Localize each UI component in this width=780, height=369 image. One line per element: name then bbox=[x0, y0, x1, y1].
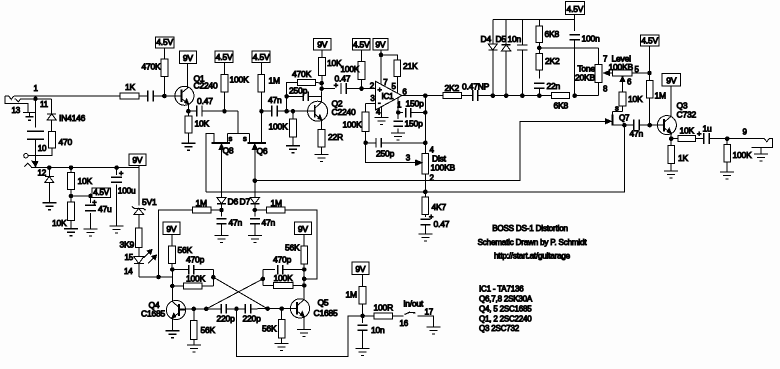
note Q45 2SC1685 bbox=[479, 305, 532, 314]
label 47n Q7 bbox=[630, 129, 644, 139]
label IC1 bbox=[382, 92, 395, 101]
resistor 10K divider lower bbox=[68, 196, 75, 229]
svg-text:Q8: Q8 bbox=[223, 146, 234, 156]
svg-text:3K9: 3K9 bbox=[120, 240, 135, 250]
svg-text:1K: 1K bbox=[125, 82, 136, 92]
label 220p right bbox=[243, 314, 262, 324]
node line A D7 bbox=[253, 178, 258, 183]
wire 9V to 21K bbox=[381, 55, 397, 60]
svg-text:D6: D6 bbox=[228, 197, 239, 207]
power box 9V 1M bbox=[352, 262, 369, 275]
ground under 22R bbox=[315, 155, 329, 162]
svg-text:2K2: 2K2 bbox=[545, 56, 560, 66]
diode D7 bbox=[250, 181, 259, 210]
svg-text:Q7: Q7 bbox=[619, 114, 630, 123]
wire 47n to Q1 base bbox=[153, 95, 174, 97]
node Q5 base diag bbox=[265, 306, 270, 311]
plus mark 0.47 gnd bbox=[429, 212, 434, 221]
label 22R bbox=[328, 132, 343, 142]
jfet Q6 2SK30A bbox=[247, 133, 265, 180]
svg-text:9V: 9V bbox=[132, 155, 143, 165]
svg-text:56K: 56K bbox=[201, 325, 216, 335]
resistor 10K Q2 collector bbox=[319, 50, 326, 102]
power box 4.5V 100K bbox=[215, 51, 233, 63]
label 10n top bbox=[508, 34, 522, 44]
diode D5 bbox=[502, 20, 511, 96]
resistor 100K output bbox=[724, 139, 731, 172]
label pin 1 bbox=[397, 101, 402, 110]
svg-text:IC1: IC1 bbox=[382, 92, 395, 101]
label 5V1 bbox=[142, 197, 157, 207]
svg-text:47n: 47n bbox=[630, 129, 644, 139]
note Q3 2SC732 bbox=[479, 324, 520, 333]
resistor 1M FET bias bbox=[258, 63, 265, 112]
wire 9V to pin7 bbox=[380, 50, 382, 85]
svg-text:10n: 10n bbox=[508, 34, 522, 44]
label 100R bbox=[374, 303, 394, 313]
label pin 14 bbox=[124, 267, 133, 276]
label C1685 Q4 bbox=[141, 309, 166, 319]
node IC output bbox=[423, 93, 428, 98]
capacitor 220p right bbox=[245, 304, 250, 314]
wire pin3 to Dist wiper bbox=[366, 143, 422, 165]
label 10n bottom bbox=[371, 325, 385, 335]
resistor 10K level bbox=[619, 92, 626, 112]
node 250p tap bbox=[284, 94, 289, 99]
label 2K2 mid bbox=[445, 83, 460, 93]
wire diagonal B bbox=[206, 279, 263, 309]
svg-text:56K: 56K bbox=[262, 324, 277, 334]
ground under 56K Q5 base bbox=[275, 344, 289, 351]
svg-text:9V: 9V bbox=[166, 224, 177, 234]
svg-text:220p: 220p bbox=[243, 314, 262, 324]
wire power rail 9V bbox=[31, 167, 139, 169]
ground under divider bbox=[64, 229, 78, 236]
capacitor 10n top bbox=[517, 20, 528, 96]
svg-text:10K: 10K bbox=[78, 176, 93, 186]
label 10K Q2 bbox=[327, 58, 342, 68]
node ring junction bbox=[33, 97, 38, 102]
diode D IN4146 bbox=[47, 99, 56, 132]
label Q6 bbox=[257, 146, 268, 156]
note IC1 - TA7136 bbox=[479, 285, 524, 294]
node Q1 emitter bbox=[186, 109, 191, 114]
wire Q3 emitter bbox=[670, 134, 672, 139]
jfet Q8 2SK30A bbox=[206, 133, 250, 197]
wire 470p corner Q5 bbox=[262, 270, 264, 286]
label 47n D6 bbox=[229, 218, 243, 228]
label D5 bbox=[496, 34, 507, 44]
note Q678 2SK30A bbox=[479, 295, 533, 304]
svg-text:100n: 100n bbox=[582, 34, 601, 44]
label D7 bbox=[240, 197, 251, 207]
label 100u bbox=[118, 186, 136, 196]
label pin 2 bbox=[370, 81, 375, 90]
capacitor 100u bbox=[111, 168, 122, 226]
svg-text:15: 15 bbox=[125, 253, 134, 262]
wire diagonal A bbox=[213, 277, 267, 309]
svg-text:100K: 100K bbox=[733, 150, 753, 160]
label 220p left bbox=[217, 314, 236, 324]
capacitor 47n input bbox=[148, 91, 153, 102]
label 470p Q5 bbox=[273, 255, 292, 265]
svg-text:Q3 2SC732: Q3 2SC732 bbox=[479, 324, 520, 333]
wire IC output bbox=[402, 95, 443, 97]
label Q4 bbox=[149, 300, 160, 310]
svg-text:http://start.at/guitarage: http://start.at/guitarage bbox=[494, 252, 571, 261]
svg-text:470: 470 bbox=[59, 137, 73, 147]
wire Q2 emitter bbox=[321, 121, 323, 130]
svg-text:4.5V: 4.5V bbox=[641, 36, 658, 46]
label 10K Q3 out bbox=[680, 126, 695, 136]
switch in/out blade bbox=[405, 312, 416, 314]
wire Q6 to 47n bbox=[262, 110, 272, 112]
ground under 47n D7 bbox=[248, 236, 262, 243]
node Q2 base bias bbox=[291, 109, 296, 114]
node output riser 250p bbox=[423, 141, 428, 146]
node IC input 100K bbox=[359, 86, 364, 91]
capacitor 470p Q4 bbox=[172, 265, 213, 275]
svg-text:4K7: 4K7 bbox=[432, 202, 447, 212]
svg-text:100KB: 100KB bbox=[431, 163, 456, 173]
svg-text:10K: 10K bbox=[628, 94, 643, 104]
label 250p Q2 bbox=[289, 86, 308, 96]
svg-text:C1685: C1685 bbox=[141, 309, 166, 319]
wire 1M D7 to Q5 collector bbox=[285, 210, 317, 279]
node Q2 feedback riser bbox=[284, 109, 289, 114]
diode D battery protection bbox=[45, 168, 54, 203]
svg-text:13: 13 bbox=[12, 106, 21, 115]
svg-text:5V1: 5V1 bbox=[142, 197, 157, 207]
svg-text:4.5V: 4.5V bbox=[156, 37, 173, 47]
plus mark 0.47 IC bbox=[334, 81, 339, 90]
node 47u junction bbox=[88, 194, 93, 199]
wire tip to 1K bbox=[14, 95, 120, 97]
label pin 7 bbox=[383, 78, 388, 87]
label pin 17 bbox=[425, 308, 434, 317]
svg-text:22R: 22R bbox=[328, 132, 343, 142]
label pin 4 dist bbox=[430, 146, 435, 155]
label s Q6 bbox=[243, 134, 247, 143]
label pin 7 tone bbox=[603, 55, 608, 64]
capacitor 250p Q2 bbox=[287, 92, 322, 102]
wire 1M left lead-in bbox=[159, 210, 193, 277]
svg-text:9V: 9V bbox=[183, 53, 194, 63]
label 0.47 IC bbox=[335, 74, 351, 84]
label s Q8 bbox=[229, 134, 233, 143]
wire 1u to output jack bbox=[709, 138, 764, 140]
wire 9V box to zener bbox=[138, 166, 140, 206]
label 10K Q1 bbox=[195, 119, 210, 129]
label pin 6 bbox=[402, 88, 407, 97]
label 10K lower bbox=[52, 218, 67, 228]
svg-text:3: 3 bbox=[370, 94, 375, 103]
node 10n main bbox=[520, 93, 525, 98]
svg-text:9V: 9V bbox=[317, 39, 328, 49]
label 0.47 dist bbox=[434, 219, 450, 229]
label 100K FET bias bbox=[230, 75, 250, 85]
battery plates bbox=[27, 131, 44, 139]
svg-text:10n: 10n bbox=[371, 325, 385, 335]
svg-text:470K: 470K bbox=[292, 69, 312, 79]
svg-text:Q4, 5 2SC1685: Q4, 5 2SC1685 bbox=[479, 305, 532, 314]
pot Tone 20KB bbox=[595, 65, 613, 83]
label C2240 bbox=[194, 80, 219, 90]
plus mark 1u bbox=[697, 129, 702, 138]
capacitor 22n bbox=[534, 83, 545, 96]
node Q6 drain 1M bbox=[259, 109, 264, 114]
ground under Q5 bbox=[297, 330, 311, 337]
capacitor 47u bbox=[85, 196, 96, 229]
label Q7 bbox=[619, 114, 630, 123]
title BOSS DS-1 Distortion bbox=[492, 224, 568, 233]
pot Level 100KB bbox=[613, 70, 633, 92]
ground under protection diode bbox=[42, 203, 56, 210]
wire 100R to switch bbox=[393, 315, 404, 317]
label 1M flipflop bbox=[346, 290, 358, 300]
resistor 1K Q3 bbox=[668, 139, 675, 171]
resistor 100K IC bias bbox=[358, 50, 365, 89]
wire line B signal bbox=[206, 125, 624, 192]
label pin 10 bbox=[38, 144, 47, 153]
svg-text:470p: 470p bbox=[186, 255, 205, 265]
svg-text:D7: D7 bbox=[240, 197, 251, 207]
ground under Q1 10K bbox=[181, 143, 195, 150]
wire 1K to 47n bbox=[139, 95, 148, 97]
capacitor 100n bbox=[569, 35, 580, 96]
svg-text:100u: 100u bbox=[118, 186, 136, 196]
diode D6 bbox=[217, 198, 226, 210]
label 4K7 bbox=[432, 202, 447, 212]
power box 4.5V Q1 bias bbox=[155, 37, 174, 48]
svg-text:47u: 47u bbox=[98, 204, 112, 214]
power box 9V Q1 bbox=[180, 51, 197, 64]
node Q4 base 56K bbox=[192, 307, 197, 312]
node 100n main bbox=[572, 93, 577, 98]
label C1685 Q5 bbox=[314, 308, 339, 318]
svg-text:4.5V: 4.5V bbox=[93, 188, 110, 197]
wire 0.47 to IC pin2 bbox=[346, 88, 375, 90]
label Q3 bbox=[677, 101, 688, 111]
label 1M Q3 bias bbox=[655, 91, 667, 101]
label 100n bbox=[582, 34, 601, 44]
node pin1 150p bbox=[396, 110, 401, 115]
label 6K8 upper bbox=[545, 29, 560, 39]
LED indicator diode bbox=[134, 257, 144, 277]
wire ring to diode chain bbox=[36, 98, 52, 100]
wire pin1 riser bbox=[397, 98, 399, 113]
zener diode 5V1 bbox=[132, 207, 146, 229]
power box 4.5V 1M bbox=[252, 51, 270, 63]
label 470 bbox=[59, 137, 73, 147]
diode D4 bbox=[488, 20, 497, 96]
node D7 1M 47n bbox=[253, 208, 258, 213]
label 1K bbox=[125, 82, 136, 92]
resistor 470 bbox=[49, 131, 56, 148]
svg-text:2K2: 2K2 bbox=[445, 83, 460, 93]
subtitle url bbox=[494, 252, 571, 261]
label 20KB bbox=[575, 73, 596, 83]
svg-text:100K: 100K bbox=[341, 64, 360, 74]
capacitor 220p left bbox=[221, 304, 226, 314]
label Q5 bbox=[318, 298, 329, 308]
capacitor 47n D7 bbox=[250, 210, 260, 236]
svg-text:1M: 1M bbox=[346, 290, 358, 300]
node Q5 coll 1M bbox=[302, 277, 307, 282]
resistor 56K Q4 collector bbox=[169, 235, 176, 270]
resistor 6K8 tone upper bbox=[536, 20, 543, 48]
subtitle Schematic Drawn by P. Schmidt bbox=[478, 238, 588, 247]
label 250p IC bbox=[376, 149, 395, 159]
label Q1 bbox=[194, 74, 205, 84]
wire Q2 collector to 0.47 cap bbox=[322, 88, 335, 90]
wire Q2 base riser bbox=[287, 82, 298, 111]
ground under 100u bbox=[110, 226, 124, 233]
wire main to tone bbox=[478, 95, 552, 97]
resistor 1M D6 bbox=[193, 207, 222, 213]
resistor 100K IC pin3 bbox=[362, 103, 369, 142]
resistor 100K Q2 base bias bbox=[290, 111, 297, 146]
svg-text:14: 14 bbox=[124, 267, 133, 276]
svg-text:7: 7 bbox=[383, 78, 388, 87]
label pin 4 bbox=[376, 108, 381, 117]
svg-text:250p: 250p bbox=[289, 86, 308, 96]
label 3K9 bbox=[120, 240, 135, 250]
label C2240 Q2 bbox=[332, 107, 357, 117]
wire 220p to Q5 base bbox=[251, 308, 296, 310]
label C732 bbox=[677, 110, 697, 120]
svg-text:56K: 56K bbox=[285, 243, 300, 253]
battery switch arrow bbox=[32, 161, 38, 167]
transistor Q4 C1685 bbox=[166, 300, 185, 319]
svg-text:0.47: 0.47 bbox=[335, 74, 351, 84]
capacitor 0.47 IC input bbox=[341, 83, 346, 94]
resistor 21K bbox=[394, 60, 401, 93]
ground under 1K Q3 bbox=[664, 171, 678, 178]
resistor 4K7 bbox=[422, 192, 429, 217]
capacitor 0.47 dist gnd bbox=[420, 219, 430, 234]
label 470K bbox=[141, 62, 161, 72]
wire IC pin4 ground bbox=[381, 107, 383, 118]
label 0.47NP bbox=[462, 82, 490, 92]
svg-text:Q6,7,8 2SK30A: Q6,7,8 2SK30A bbox=[479, 295, 533, 304]
svg-text:6K8: 6K8 bbox=[554, 101, 569, 111]
ground under Q4 bbox=[165, 331, 179, 338]
label 100K Q2 bias bbox=[269, 122, 289, 132]
power box 9V Q4 bbox=[163, 222, 180, 235]
label 21K bbox=[403, 61, 418, 71]
node D5 main bbox=[504, 93, 509, 98]
svg-text:4.5V: 4.5V bbox=[353, 39, 370, 49]
svg-text:11: 11 bbox=[40, 100, 49, 109]
svg-text:0.47: 0.47 bbox=[197, 96, 213, 106]
node rail protection diode bbox=[47, 165, 52, 170]
label Q2 bbox=[332, 99, 343, 109]
svg-text:D4: D4 bbox=[481, 34, 492, 44]
svg-text:Q1, 2 2SC2240: Q1, 2 2SC2240 bbox=[479, 314, 532, 323]
resistor 10K divider upper bbox=[68, 168, 75, 196]
svg-text:10K: 10K bbox=[52, 218, 67, 228]
plus mark pin2 bbox=[378, 85, 383, 94]
wire ring down to battery bbox=[35, 99, 37, 128]
resistor 10K Q3 out bbox=[671, 136, 695, 142]
node D6 1M 47n bbox=[219, 208, 224, 213]
label 47n Q2 in bbox=[268, 95, 282, 105]
node rail 100u bbox=[114, 165, 119, 170]
node 1M 10n 100R bbox=[360, 314, 365, 319]
label 47n D7 bbox=[262, 218, 276, 228]
label D4 bbox=[481, 34, 492, 44]
label 470K Q2 bbox=[292, 69, 312, 79]
svg-text:BOSS DS-1 Distortion: BOSS DS-1 Distortion bbox=[492, 224, 568, 233]
svg-text:C732: C732 bbox=[677, 110, 697, 120]
svg-text:9V: 9V bbox=[666, 75, 677, 85]
resistor 2K2 mid bbox=[443, 93, 462, 99]
wire Q4 base bbox=[179, 308, 222, 310]
label 1K Q3 bbox=[678, 153, 689, 163]
transistor Q5 C1685 bbox=[290, 299, 309, 318]
power label 4.5V divider bbox=[92, 188, 111, 198]
label 100K Q4 fb bbox=[186, 274, 206, 284]
svg-text:1M: 1M bbox=[269, 76, 281, 86]
svg-text:1K: 1K bbox=[678, 153, 689, 163]
pot Dist 100KB bbox=[416, 143, 428, 192]
capacitor 10n bottom bbox=[358, 316, 368, 349]
svg-text:150p: 150p bbox=[406, 99, 425, 109]
label 56K Q5 coll bbox=[285, 243, 300, 253]
ground IC pin4 bbox=[375, 118, 389, 125]
svg-text:0.47: 0.47 bbox=[434, 219, 450, 229]
resistor 1M flipflop bbox=[359, 275, 366, 316]
svg-text:100K: 100K bbox=[186, 274, 206, 284]
resistor 100R bbox=[363, 313, 393, 319]
resistor 470K Q1 bias bbox=[161, 59, 168, 96]
svg-text:9V: 9V bbox=[375, 39, 386, 49]
node diag A origin bbox=[211, 275, 216, 280]
resistor 3K9 bbox=[135, 228, 142, 256]
wire Q6 drain up bbox=[261, 111, 263, 133]
capacitor 150p to ground bbox=[393, 113, 403, 134]
ground jack sleeve bbox=[26, 113, 34, 121]
resistor 56K Q4 base bbox=[190, 309, 197, 345]
wire 4.5V to level node bbox=[649, 46, 651, 73]
svg-text:4.5V: 4.5V bbox=[216, 52, 233, 62]
label IN4146 bbox=[59, 113, 86, 123]
wire Q4 collector riser bbox=[171, 270, 173, 302]
label 100K Q5 fb bbox=[274, 273, 294, 283]
svg-text:16: 16 bbox=[400, 319, 409, 328]
label 56K Q4 coll bbox=[178, 245, 193, 255]
capacitor 470p Q5 bbox=[263, 265, 304, 275]
capacitor 47n D6 bbox=[217, 210, 227, 236]
label 100K output bbox=[733, 150, 753, 160]
ground under switch bbox=[426, 327, 440, 334]
node diag B origin bbox=[261, 277, 266, 282]
node D4 main bbox=[491, 93, 496, 98]
node Q2 collector out bbox=[319, 86, 324, 91]
power box 4.5V top bbox=[565, 2, 584, 15]
label pin 6 level bbox=[627, 78, 632, 87]
label pin 8 tone bbox=[603, 85, 608, 94]
node Q1 base 470K bbox=[162, 94, 167, 99]
ground under 56K Q4 base bbox=[187, 345, 201, 352]
wire 10K to 1u bbox=[696, 138, 704, 140]
node rail 10K bbox=[69, 165, 74, 170]
capacitor 150p feedback bbox=[398, 96, 425, 143]
svg-text:s: s bbox=[615, 104, 619, 113]
capacitor 47n Q2 in bbox=[272, 106, 277, 117]
svg-text:100R: 100R bbox=[374, 303, 394, 313]
